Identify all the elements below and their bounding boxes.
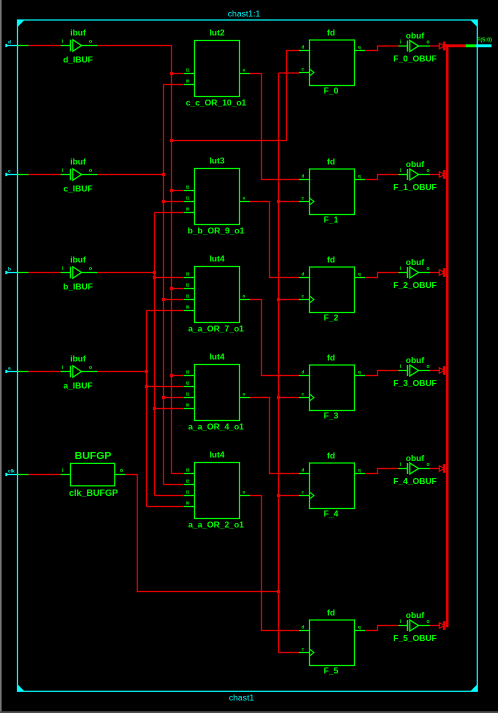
- LUT c_c_OR_10_o1 (lut2): [184, 28, 250, 108]
- net clk branch to F_3 c: [279, 397, 300, 399]
- net b branch to a_a_OR_4 i0: [155, 408, 185, 410]
- junction d/F_0: [170, 139, 173, 142]
- svg-text:lut3: lut3: [209, 156, 224, 166]
- buffer c_IBUF (ibuf): [61, 157, 98, 194]
- net clk branch to F_2 c: [279, 299, 300, 301]
- net a: ibuf output to vertical: [98, 371, 147, 373]
- net b branch to lut3 i0: [155, 212, 185, 214]
- net a branch to a_a_OR_4 i2: [147, 386, 185, 388]
- net clk from BUFGP to clock trunk: [126, 475, 279, 592]
- svg-text:a_a_OR_4_o1: a_a_OR_4_o1: [188, 422, 244, 432]
- net c branch to lut3 i1: [164, 201, 185, 203]
- svg-text:o: o: [427, 619, 430, 625]
- svg-text:o: o: [89, 266, 92, 272]
- net a_a_OR_2_o1 to F_5 d: [250, 496, 299, 631]
- buffer b_IBUF (ibuf): [61, 255, 98, 292]
- junction c/lut3: [162, 200, 165, 203]
- svg-text:b_b_OR_9_o1: b_b_OR_9_o1: [188, 226, 245, 236]
- svg-text:d: d: [302, 467, 305, 472]
- svg-text:obuf: obuf: [406, 453, 425, 463]
- svg-text:o: o: [243, 391, 246, 396]
- junction b tee: [153, 271, 156, 274]
- net c green segment: [18, 174, 29, 176]
- junction d/lut3: [170, 189, 173, 192]
- net a_a_OR_7_o1 to F_3 d: [250, 300, 299, 376]
- net F_1 q to obuf: [365, 175, 399, 180]
- junction d/lut2: [170, 72, 173, 75]
- net a wire to buffer: [29, 371, 61, 373]
- net c vertical run: [163, 85, 165, 485]
- net d branch to lut3 i2: [172, 190, 185, 192]
- net F_4 q to obuf: [365, 469, 399, 474]
- svg-text:obuf: obuf: [406, 257, 425, 267]
- net d branch to a_a_OR_4 i3: [172, 375, 185, 377]
- junction c tee: [162, 173, 165, 176]
- junction b/OR_7: [153, 276, 156, 279]
- bus tap F_5: [439, 621, 445, 630]
- junction c/OR_7: [162, 298, 165, 301]
- svg-text:o: o: [89, 365, 92, 371]
- net a green segment: [18, 371, 29, 373]
- net d branch to F_0 d: [172, 51, 300, 141]
- net c_c_OR_10_o1 to F_1 d: [250, 74, 299, 180]
- svg-text:obuf: obuf: [406, 610, 425, 620]
- net clk vertical trunk: [278, 73, 280, 653]
- svg-text:a: a: [8, 367, 11, 372]
- svg-text:o: o: [243, 67, 246, 72]
- flip-flop F_3 (fd): [299, 352, 365, 420]
- bus thick segment to output port: [445, 44, 466, 47]
- junction clk/F_4: [277, 494, 280, 497]
- net b vertical run: [154, 213, 156, 496]
- svg-text:F_3: F_3: [324, 411, 339, 421]
- svg-text:F_0: F_0: [324, 86, 339, 96]
- svg-text:b: b: [8, 267, 11, 273]
- net clk green segment: [18, 474, 29, 476]
- net d wire to buffer: [29, 45, 61, 47]
- net F_4_OBUF output to bus tap: [430, 468, 440, 470]
- svg-text:F_5_OBUF: F_5_OBUF: [393, 633, 436, 643]
- svg-text:o: o: [243, 293, 246, 298]
- buffer F_0_OBUF (obuf): [393, 31, 436, 64]
- junction clk/BUFGP: [277, 590, 280, 593]
- svg-text:q: q: [358, 173, 361, 178]
- net d branch to a_a_OR_7 i2: [172, 288, 185, 290]
- junction clk/F_2: [277, 298, 280, 301]
- input port clk: [5, 473, 7, 476]
- svg-text:o: o: [243, 195, 246, 200]
- junction b/OR_4: [153, 407, 156, 410]
- svg-text:lut2: lut2: [209, 28, 224, 38]
- svg-text:b_IBUF: b_IBUF: [63, 282, 93, 292]
- net F_0 q to obuf: [365, 46, 399, 51]
- buffer d_IBUF (ibuf): [61, 28, 98, 65]
- net b green segment: [18, 272, 29, 274]
- LUT b_b_OR_9_o1 (lut3): [184, 156, 250, 236]
- input port b: [5, 271, 7, 274]
- svg-text:q: q: [358, 467, 361, 472]
- input port c: [5, 173, 7, 176]
- svg-text:ibuf: ibuf: [70, 157, 86, 167]
- net d: ibuf output to vertical run: [98, 46, 172, 474]
- svg-text:d: d: [302, 173, 305, 178]
- svg-text:ibuf: ibuf: [70, 28, 86, 38]
- svg-text:obuf: obuf: [406, 355, 425, 365]
- buffer F_1_OBUF (obuf): [393, 159, 436, 192]
- net clk branch to F_0 c: [279, 72, 300, 74]
- net c wire to buffer: [29, 174, 61, 176]
- buffer F_5_OBUF (obuf): [393, 610, 436, 643]
- net F_2 q to obuf: [365, 273, 399, 278]
- svg-text:F_4_OBUF: F_4_OBUF: [393, 476, 436, 486]
- net clk branch to F_5 c: [279, 652, 300, 654]
- svg-text:fd: fd: [327, 607, 335, 617]
- net a_a_OR_4_o1 to F_4 d: [250, 398, 299, 474]
- svg-text:obuf: obuf: [406, 31, 425, 41]
- svg-text:o: o: [427, 39, 430, 45]
- net d green segment: [18, 45, 29, 47]
- input port a: [5, 370, 7, 373]
- bus tap F_2: [439, 268, 445, 277]
- buffer F_2_OBUF (obuf): [393, 257, 436, 290]
- bus tap F_3: [439, 366, 445, 375]
- flip-flop F_0 (fd): [299, 27, 365, 95]
- net d branch to lut2 i1: [172, 73, 185, 75]
- svg-text:a_a_OR_2_o1: a_a_OR_2_o1: [188, 520, 244, 530]
- svg-text:q: q: [358, 271, 361, 276]
- svg-text:c_IBUF: c_IBUF: [63, 184, 92, 194]
- net F_3_OBUF output to bus tap: [430, 370, 440, 372]
- net F_5_OBUF output to bus tap: [430, 625, 440, 627]
- svg-text:F_2_OBUF: F_2_OBUF: [393, 280, 436, 290]
- svg-text:F_1: F_1: [324, 215, 339, 225]
- output port F(5:0) cyan segment: [476, 44, 492, 47]
- buffer F_4_OBUF (obuf): [393, 453, 436, 486]
- buffer F_3_OBUF (obuf): [393, 355, 436, 388]
- svg-text:F_2: F_2: [324, 313, 339, 323]
- svg-text:fd: fd: [327, 254, 335, 264]
- LUT a_a_OR_4_o1 (lut4): [184, 352, 250, 432]
- svg-text:fd: fd: [327, 27, 335, 37]
- bus F(5:0) vertical trunk: [446, 44, 449, 627]
- svg-text:q: q: [358, 369, 361, 374]
- svg-text:a_a_OR_7_o1: a_a_OR_7_o1: [188, 324, 244, 334]
- flip-flop F_1 (fd): [299, 156, 365, 224]
- bottom window edge: [0, 711, 498, 713]
- svg-text:d: d: [302, 271, 305, 276]
- border corner chamfers: [18, 20, 25, 27]
- net a branch to a_a_OR_7 i0: [147, 310, 185, 312]
- svg-text:q: q: [358, 624, 361, 629]
- svg-text:d: d: [302, 369, 305, 374]
- buffer a_IBUF (ibuf): [61, 354, 98, 391]
- svg-text:o: o: [243, 489, 246, 494]
- net c branch to lut2 i0: [164, 84, 185, 86]
- svg-text:ibuf: ibuf: [70, 354, 86, 364]
- svg-text:BUFGP: BUFGP: [75, 450, 112, 462]
- net b branch to a_a_OR_7 i3: [155, 277, 185, 279]
- svg-text:chast1:1: chast1:1: [228, 9, 261, 19]
- buffer clk_BUFGP (BUFGP): [61, 450, 126, 498]
- svg-text:F_5: F_5: [324, 666, 339, 676]
- net c branch to a_a_OR_7 i1: [164, 299, 185, 301]
- net a vertical run: [146, 311, 148, 507]
- svg-text:d: d: [302, 624, 305, 629]
- svg-text:lut4: lut4: [209, 352, 224, 362]
- net F_3 q to obuf: [365, 371, 399, 376]
- svg-text:fd: fd: [327, 450, 335, 460]
- left window edge: [0, 0, 2, 713]
- svg-text:o: o: [427, 462, 430, 468]
- flip-flop F_2 (fd): [299, 254, 365, 322]
- svg-text:F(5:0): F(5:0): [477, 38, 492, 44]
- svg-text:o: o: [427, 168, 430, 174]
- net F_0_OBUF output to bus tap: [430, 45, 440, 47]
- junction d/OR_7: [170, 287, 173, 290]
- net F_5 q to obuf: [365, 626, 399, 631]
- net c branch to a_a_OR_4 i1: [164, 397, 185, 399]
- net F_2_OBUF output to bus tap: [430, 272, 440, 274]
- junction clk/F_1: [277, 200, 280, 203]
- junction a/OR_4: [145, 385, 148, 388]
- svg-text:lut4: lut4: [209, 450, 224, 460]
- bus tap F_4: [439, 464, 445, 473]
- svg-text:o: o: [427, 266, 430, 272]
- svg-text:F_0_OBUF: F_0_OBUF: [393, 54, 436, 64]
- net clk branch to F_1 c: [279, 201, 300, 203]
- net b_b_OR_9_o1 to F_2 d: [250, 202, 299, 278]
- junction d/OR_4: [170, 374, 173, 377]
- input port d: [5, 44, 7, 47]
- svg-text:lut4: lut4: [209, 254, 224, 264]
- svg-text:c: c: [8, 170, 11, 175]
- svg-text:F_1_OBUF: F_1_OBUF: [393, 182, 436, 192]
- net b branch to a_a_OR_2 i1: [155, 495, 185, 497]
- bus tap F_1: [439, 170, 445, 179]
- junction a tee: [145, 370, 148, 373]
- svg-text:clk_BUFGP: clk_BUFGP: [69, 488, 118, 498]
- svg-text:fd: fd: [327, 352, 335, 362]
- LUT a_a_OR_7_o1 (lut4): [184, 254, 250, 334]
- svg-text:chast1: chast1: [229, 693, 255, 703]
- LUT a_a_OR_2_o1 (lut4): [184, 450, 250, 530]
- svg-text:o: o: [120, 468, 123, 474]
- net clk wire to buffer: [29, 474, 61, 476]
- svg-text:fd: fd: [327, 156, 335, 166]
- svg-text:o: o: [89, 168, 92, 174]
- svg-text:a_IBUF: a_IBUF: [63, 381, 92, 391]
- svg-text:o: o: [89, 39, 92, 45]
- svg-text:d_IBUF: d_IBUF: [63, 55, 93, 65]
- bus tap F_0: [439, 42, 445, 51]
- net d branch to a_a_OR_2 i3: [172, 473, 185, 475]
- junction clk/F_3: [277, 396, 280, 399]
- net c branch to a_a_OR_2 i2: [164, 484, 185, 486]
- svg-text:ibuf: ibuf: [70, 255, 86, 265]
- flip-flop F_4 (fd): [299, 450, 365, 518]
- net c: ibuf output to vertical: [98, 174, 164, 176]
- net clk branch to F_4 c: [279, 495, 300, 497]
- svg-text:clk: clk: [8, 469, 15, 475]
- net b wire to buffer: [29, 272, 61, 274]
- flip-flop F_5 (fd): [299, 607, 365, 675]
- svg-text:q: q: [358, 44, 361, 49]
- svg-text:d: d: [302, 44, 305, 49]
- net a branch to a_a_OR_2 i0: [147, 506, 185, 508]
- net F_1_OBUF output to bus tap: [430, 174, 440, 176]
- svg-text:c_c_OR_10_o1: c_c_OR_10_o1: [186, 98, 247, 108]
- svg-text:F_4: F_4: [324, 509, 339, 519]
- output port F(5:0) green segment: [466, 44, 476, 47]
- svg-text:o: o: [427, 364, 430, 370]
- svg-text:F_3_OBUF: F_3_OBUF: [393, 378, 436, 388]
- svg-text:obuf: obuf: [406, 159, 425, 169]
- svg-text:d: d: [8, 40, 11, 46]
- junction c/OR_4: [162, 396, 165, 399]
- net b: ibuf output to vertical: [98, 272, 155, 274]
